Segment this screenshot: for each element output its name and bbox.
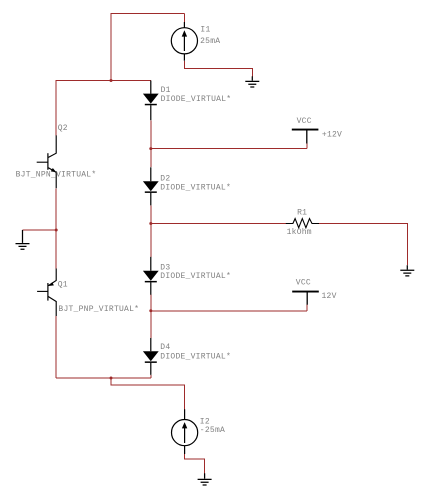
- wire Q2 emitter to Q1 emitter rail: [55, 188, 57, 268]
- ground (right): [400, 265, 414, 276]
- svg-text:BJT_PNP_VIRTUAL*: BJT_PNP_VIRTUAL*: [58, 305, 139, 314]
- wire ground branch left: [23, 229, 57, 231]
- wire bottom horizontal: [56, 377, 151, 379]
- svg-text:25mA: 25mA: [200, 37, 220, 46]
- wire I1 top stub: [183, 14, 185, 22]
- svg-text:DIODE_VIRTUAL*: DIODE_VIRTUAL*: [160, 272, 231, 281]
- wire VCC2 branch: [151, 305, 307, 311]
- junction node A: [110, 79, 113, 82]
- svg-text:I2: I2: [200, 417, 210, 426]
- wire R1 left: [151, 223, 286, 225]
- wire branch to I2: [111, 378, 185, 409]
- current source I2: [172, 409, 198, 454]
- diode D1: [143, 81, 231, 121]
- wire I1 bottom to ground: [184, 61, 252, 77]
- wire D3 to D4: [150, 295, 152, 338]
- wire node-A horizontal: [56, 80, 151, 82]
- svg-text:VCC: VCC: [297, 117, 312, 126]
- svg-text:BJT_NPN_VIRTUAL*: BJT_NPN_VIRTUAL*: [16, 170, 97, 179]
- svg-text:I1: I1: [200, 25, 210, 34]
- svg-text:+12V: +12V: [322, 130, 342, 139]
- wire top-left vertical: [110, 14, 112, 81]
- svg-text:-25mA: -25mA: [200, 426, 225, 435]
- wire left rail to Q2 collector: [55, 80, 57, 135]
- svg-text:VCC: VCC: [296, 279, 311, 288]
- ground (left): [16, 230, 30, 249]
- wire I2 bottom to ground: [185, 454, 205, 473]
- junction D1-D2 / VCC1: [149, 147, 152, 150]
- svg-text:DIODE_VIRTUAL*: DIODE_VIRTUAL*: [160, 184, 231, 193]
- svg-text:12V: 12V: [322, 292, 337, 301]
- VCC2 12V: [292, 279, 336, 305]
- svg-text:D4: D4: [160, 343, 170, 352]
- svg-text:D3: D3: [160, 263, 170, 272]
- resistor R1: [286, 208, 319, 237]
- junction bottom branch: [110, 377, 113, 380]
- ground (bottom): [198, 473, 212, 485]
- svg-text:1kOhm: 1kOhm: [287, 228, 312, 237]
- wire D1 to D2: [150, 120, 152, 167]
- wire R1 right to ground: [319, 224, 407, 266]
- junction D2-D3 / R1: [149, 222, 152, 225]
- junction left rail / ground: [55, 229, 58, 232]
- ground (top right): [245, 76, 259, 87]
- svg-text:R1: R1: [297, 208, 307, 217]
- svg-text:D1: D1: [161, 86, 171, 95]
- svg-text:DIODE_VIRTUAL*: DIODE_VIRTUAL*: [161, 95, 232, 104]
- wire D2 to D3: [150, 205, 152, 257]
- VCC1 +12V: [292, 117, 342, 144]
- svg-text:Q2: Q2: [58, 124, 68, 133]
- junction D3-D4 / VCC2: [149, 309, 152, 312]
- transistor Q2 (NPN): [16, 124, 97, 189]
- svg-text:Q1: Q1: [58, 280, 68, 289]
- wire D4 tail: [150, 375, 152, 378]
- wire top horizontal: [111, 13, 185, 15]
- wire Q1 collector down: [55, 316, 57, 378]
- wire VCC1 branch: [151, 144, 307, 149]
- diode D3: [143, 257, 231, 295]
- transistor Q1 (PNP): [37, 269, 139, 317]
- current source I1: [171, 22, 197, 61]
- svg-text:DIODE_VIRTUAL*: DIODE_VIRTUAL*: [160, 353, 231, 362]
- diode D2: [143, 167, 231, 205]
- svg-text:D2: D2: [160, 174, 170, 183]
- diode D4: [143, 338, 231, 375]
